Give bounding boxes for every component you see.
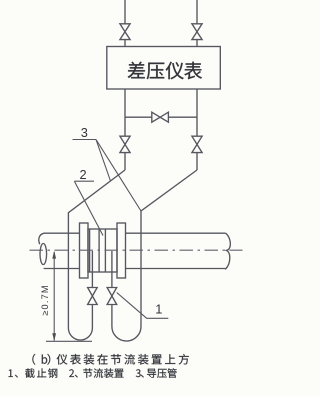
svg-text:3: 3 [81,125,88,140]
wire: equalizing line [125,116,152,118]
wire: right drop below instrument [196,89,198,136]
dimension extension baseline [46,340,92,342]
right U loop bottom [112,327,141,342]
caption line 1 仪表装在节流装置上方 [32,354,188,365]
throttling device body (node 2) [88,229,117,272]
label 3 leader B to right tube corner [96,140,141,212]
wire: right tap to loop [111,305,113,327]
wire: right impulse tube diagonal down to right loop [141,170,197,327]
text 差压仪表 [128,62,202,80]
valve V-tap-right (bowtie, node 1) [107,288,117,305]
label 2 leader to orifice [74,181,103,235]
valve V-top-left (two-triangle bowtie) [120,24,130,40]
dimension arrow down [52,333,56,341]
caption line 2 截止钢 节流装置 导压管 [9,368,177,378]
valve V-tap-left (bowtie, node 1) [88,288,98,305]
label 3 leader A to left tube [96,140,111,182]
valve V-drop-right (bowtie) [192,136,202,152]
dimension arrow up [52,251,56,259]
svg-text:1: 1 [155,302,162,317]
wire: right pressure tap [111,251,113,288]
pipe right end break [225,233,230,269]
wire: left pressure tap [91,251,93,288]
flange F-right of throttling device [117,223,126,278]
centerline of pipe (dash-dot) [30,249,243,251]
valve V-top-right (two-triangle bowtie) [192,24,202,40]
wire: left impulse tube diagonal down to left loop [68,170,125,328]
wire: top right impulse line to instrument [196,0,198,24]
pipe top wall [44,232,80,234]
wire: left tap to loop [91,305,93,329]
wire: top left impulse line to instrument [124,0,126,24]
pipe bottom wall [44,268,80,270]
valve V-eq (horizontal bowtie equalizing valve) [152,112,169,122]
label 1 leader polyline [117,293,169,319]
flange F-left of throttling device [80,223,89,278]
svg-text:≥0.7M: ≥0.7M [40,284,50,315]
orifice plate lines [89,229,91,272]
dimension line [53,252,55,341]
label 3 leader underline [73,139,97,141]
pipe left end cap [39,233,44,244]
svg-text:2: 2 [79,167,86,182]
instrument box U1 差压仪表 [107,47,221,90]
wire: left drop below instrument [124,89,126,136]
label 2 leader underline [74,180,94,182]
valve V-drop-left (bowtie) [120,136,130,152]
left U loop bottom [68,328,92,340]
